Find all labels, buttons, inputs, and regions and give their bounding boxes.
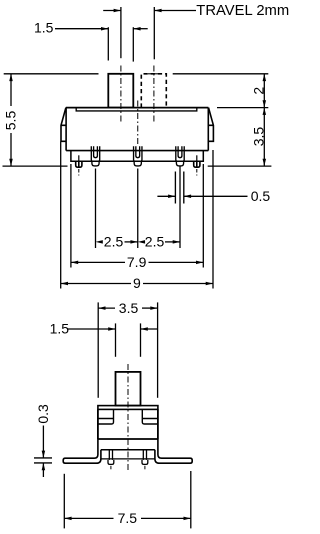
svg-text:2.5: 2.5 bbox=[104, 234, 124, 250]
terminal tips row bbox=[102, 458, 155, 460]
knob centerline cross tick left bbox=[115, 73, 127, 75]
svg-text:5.5: 5.5 bbox=[2, 111, 18, 131]
dimension 7.5 feet span bbox=[64, 471, 191, 528]
dimension 1.5 knob width bbox=[55, 27, 148, 61]
body top line bbox=[66, 107, 209, 109]
svg-text:2: 2 bbox=[251, 87, 267, 95]
left terminal bbox=[108, 450, 114, 464]
svg-text:7.5: 7.5 bbox=[118, 510, 138, 526]
side view body sides and bottom bbox=[98, 409, 158, 439]
side view knob bbox=[116, 372, 141, 406]
right mounting foot bbox=[194, 161, 200, 167]
base plate bbox=[71, 151, 203, 162]
dimension 3.5 body height bbox=[208, 108, 272, 167]
side view cap plate bbox=[98, 406, 158, 410]
dimension 1.5 side knob bbox=[67, 323, 158, 356]
knob centerline left bbox=[120, 66, 122, 123]
dimension TRAVEL 2mm bbox=[103, 7, 196, 59]
dimension 7.9 bbox=[71, 261, 203, 263]
extension line 7.9 right bbox=[202, 164, 204, 268]
svg-text:TRAVEL 2mm: TRAVEL 2mm bbox=[196, 3, 289, 19]
svg-text:2.5: 2.5 bbox=[145, 234, 165, 250]
left mounting foot bbox=[76, 161, 82, 167]
knob actuator (solid position) bbox=[108, 74, 133, 108]
extension line 7.9 left bbox=[70, 164, 72, 268]
svg-text:9: 9 bbox=[133, 275, 141, 291]
dimension 3.5 side width bbox=[98, 302, 157, 397]
side view centerline bbox=[127, 364, 129, 470]
body centerline bbox=[137, 101, 139, 147]
dimension 2.5 left bbox=[125, 241, 138, 243]
dimension 9 bbox=[61, 283, 213, 285]
left foot centerline tick bbox=[78, 169, 80, 176]
extension line pin2 center bbox=[137, 169, 139, 249]
dimension 0.5 pin thickness bbox=[175, 172, 183, 204]
dimension 2 knob height bbox=[173, 74, 269, 108]
extension line 9 left bbox=[60, 142, 62, 289]
body cover seam bbox=[76, 108, 197, 111]
dimension 5.5 overall height bbox=[3, 74, 99, 166]
extension line 9 right bbox=[212, 150, 214, 289]
right foot tick above bbox=[196, 155, 198, 161]
left terminal centerline tick bbox=[110, 466, 112, 471]
left bent leg bbox=[63, 439, 101, 463]
right foot centerline tick bbox=[196, 169, 198, 176]
right terminal centerline tick bbox=[144, 466, 146, 471]
dimension 0.3 leg thickness bbox=[34, 458, 52, 463]
svg-text:0.3: 0.3 bbox=[35, 404, 51, 424]
body left side bbox=[61, 108, 66, 151]
svg-text:3.5: 3.5 bbox=[251, 127, 267, 147]
knob actuator travel position (dashed) bbox=[141, 74, 166, 108]
extension line pin1 center bbox=[95, 169, 97, 249]
svg-text:1.5: 1.5 bbox=[34, 20, 54, 36]
svg-text:0.5: 0.5 bbox=[251, 188, 271, 204]
pin 3 bbox=[176, 146, 184, 166]
svg-text:1.5: 1.5 bbox=[50, 321, 70, 337]
side view left notch bbox=[98, 409, 114, 424]
extension line pin3 center bbox=[179, 166, 181, 248]
left foot tick above bbox=[78, 155, 80, 161]
body right side bbox=[208, 108, 213, 151]
pin 1 bbox=[91, 146, 99, 166]
dimension 2.5 right bbox=[165, 241, 180, 243]
svg-text:3.5: 3.5 bbox=[119, 300, 139, 316]
right bent leg bbox=[155, 439, 192, 463]
side view base plate bbox=[101, 449, 155, 451]
knob centerline cross tick right bbox=[148, 73, 160, 75]
pin 2 bbox=[134, 146, 142, 166]
body bottom bbox=[66, 150, 208, 152]
right terminal bbox=[142, 450, 148, 464]
side view right notch bbox=[142, 409, 158, 424]
knob centerline right travel bbox=[153, 66, 155, 123]
svg-text:7.9: 7.9 bbox=[127, 254, 147, 270]
